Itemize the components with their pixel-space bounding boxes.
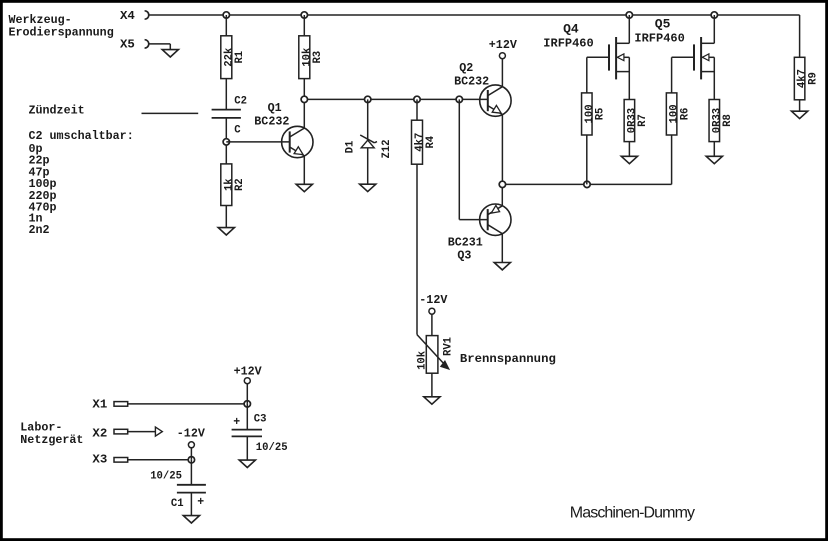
svg-text:2n2: 2n2 (29, 223, 50, 237)
label Zuendzeit (29, 103, 85, 117)
svg-text:+: + (233, 416, 240, 429)
capacitor C3 10/25 (232, 404, 288, 454)
wire Q3 collector to ground (501, 234, 503, 263)
wire Q5 drain (713, 15, 715, 43)
wire RV1 to ground (431, 373, 433, 397)
ground below Q3 (494, 263, 510, 270)
svg-text:10k: 10k (417, 350, 429, 370)
wire node to +12V (246, 384, 248, 404)
svg-text:Erodierspannung: Erodierspannung (9, 26, 114, 40)
diode D1 Z12 (345, 99, 393, 158)
junction top net at Q4 drain (626, 12, 632, 18)
wire Q5 source to R8 (713, 57, 715, 99)
connector X3 (92, 453, 127, 467)
wire Q3 base branch (459, 99, 487, 219)
svg-text:R4: R4 (425, 135, 437, 148)
svg-text:R5: R5 (595, 108, 607, 121)
svg-text:IRFP460: IRFP460 (543, 37, 593, 51)
label Werkzeug-Erodierspannung (9, 13, 114, 39)
svg-text:Q4: Q4 (563, 21, 579, 36)
resistor R4 4k7 (412, 120, 437, 164)
svg-text:R2: R2 (234, 178, 246, 191)
connector X1 (92, 398, 127, 412)
junction top net at R3 (301, 12, 307, 18)
wire R3 top (303, 15, 305, 36)
resistor R2 1k (221, 164, 246, 206)
ground below R9 (792, 111, 808, 118)
svg-text:C3: C3 (254, 414, 267, 426)
junction top net at R1 (223, 12, 229, 18)
wire -12V to RV1 (431, 314, 433, 335)
wire C3 to ground (246, 436, 248, 460)
svg-text:R6: R6 (679, 108, 691, 121)
svg-text:D1: D1 (345, 141, 357, 154)
wire X1 to +12V node (128, 403, 248, 405)
resistor R9 4k7 (794, 57, 819, 100)
label Labor-Netzgeraet (20, 421, 83, 448)
resistor R3 10k (299, 36, 324, 79)
wire R8 to ground (713, 142, 715, 157)
mosfet Q4 IRFP460 (543, 21, 629, 79)
wire Q1 collector (303, 99, 305, 127)
wire R1 top (225, 15, 227, 36)
wire D1 to ground (367, 148, 369, 184)
ground below R8 (706, 156, 722, 163)
mosfet Q5 IRFP460 (634, 17, 714, 80)
wire R6 top to Q5 gate (672, 57, 694, 93)
svg-text:R8: R8 (722, 114, 734, 127)
svg-text:10/25: 10/25 (150, 471, 182, 483)
label -12V net (177, 426, 205, 440)
svg-text:X5: X5 (120, 38, 135, 52)
svg-text:-12V: -12V (419, 293, 447, 307)
svg-text:-12V: -12V (177, 426, 205, 440)
ground below C3 (239, 460, 255, 467)
svg-text:+12V: +12V (234, 364, 262, 378)
svg-text:Z12: Z12 (381, 139, 393, 158)
resistor R8 0R33 (709, 100, 734, 142)
svg-text:Zündzeit: Zündzeit (29, 103, 85, 117)
junction output at R5 (584, 181, 590, 187)
svg-text:Q1: Q1 (268, 101, 282, 115)
capacitor C1 10/25 (150, 460, 206, 510)
connector X2 (92, 426, 127, 440)
wire R5 top to Q4 gate (587, 57, 609, 93)
svg-text:BC231: BC231 (448, 235, 483, 249)
wire R2 to ground (225, 206, 227, 228)
wire R4 bottom to RV1 wiper (416, 164, 418, 334)
junction at C1 top (188, 457, 194, 463)
ground below R2 (218, 228, 234, 235)
wire Q3 emitter up (501, 184, 503, 205)
svg-text:X2: X2 (92, 426, 107, 440)
svg-text:C1: C1 (171, 498, 184, 510)
svg-text:+: + (197, 496, 204, 509)
wire X3 to C1 node (128, 459, 192, 461)
svg-text:X3: X3 (92, 453, 107, 467)
wire base net R3 to Q2 (304, 98, 488, 100)
capacitor C2 (212, 95, 247, 136)
ground below RV1 (424, 397, 440, 404)
wire Q1 emitter to ground (303, 156, 305, 184)
supply -12V at C1 (188, 442, 194, 448)
svg-text:Q3: Q3 (457, 248, 471, 262)
svg-text:RV1: RV1 (443, 337, 455, 356)
svg-text:Brennspannung: Brennspannung (460, 352, 556, 366)
svg-text:BC232: BC232 (454, 74, 489, 88)
connector X4 (120, 9, 149, 23)
svg-text:IRFP460: IRFP460 (634, 31, 684, 45)
svg-text:R7: R7 (637, 114, 649, 127)
wire C1 to ground (190, 493, 192, 516)
junction node C2-R2-Q1 base (223, 139, 229, 145)
wire R5 bottom (586, 135, 588, 184)
svg-text:BC232: BC232 (254, 114, 289, 128)
svg-text:C: C (234, 124, 241, 136)
wire top net X4 to R9 (149, 15, 800, 57)
svg-text:Netzgerät: Netzgerät (20, 433, 83, 447)
supply -12V at RV1 (419, 293, 447, 314)
wire output net (502, 135, 671, 184)
wire Q4 drain (628, 15, 630, 43)
svg-text:X1: X1 (92, 398, 107, 412)
svg-text:X4: X4 (120, 9, 135, 23)
svg-text:10/25: 10/25 (256, 442, 288, 454)
wire R7 to ground (628, 142, 630, 157)
wire R3 bottom (303, 79, 305, 100)
wire Q4 source to R7 (628, 57, 630, 99)
wire C2 to node (225, 118, 227, 164)
resistor R6 100 (666, 93, 691, 135)
ground below Q1 (296, 184, 312, 191)
svg-text:Maschinen-Dummy: Maschinen-Dummy (570, 505, 695, 522)
svg-text:R1: R1 (234, 51, 246, 64)
junction base net at Q3 branch (456, 96, 462, 102)
svg-text:R3: R3 (312, 51, 324, 64)
junction top net at Q5 drain (711, 12, 717, 18)
junction base net at D1 (365, 96, 371, 102)
label Brennspannung (460, 352, 556, 366)
wire R9 to ground (799, 100, 801, 111)
ground below C1 (183, 516, 199, 523)
wire X2 arrow (128, 427, 163, 436)
svg-text:R9: R9 (807, 72, 819, 85)
wire X5 to ground (149, 44, 171, 50)
connector X5 (120, 38, 149, 52)
junction base net at R3 (301, 96, 307, 102)
resistor R5 100 (582, 93, 607, 135)
ground at X5 (162, 50, 178, 57)
wire -12V to node (190, 448, 192, 460)
switch wiper line for C2 (142, 112, 199, 114)
ground below R7 (621, 156, 637, 163)
svg-text:C2: C2 (234, 95, 247, 107)
supply +12V at C3 (234, 364, 262, 383)
wire Q2 collector to +12V (501, 59, 503, 86)
wire node to Q1 base (226, 141, 289, 143)
junction base net at R4 (414, 96, 420, 102)
potentiometer RV1 10k (417, 335, 455, 374)
label Maschinen-Dummy (570, 505, 695, 522)
junction output at Q2/Q3 (499, 181, 505, 187)
transistor Q2 BC232 (454, 61, 511, 116)
label C2 umschaltbar list (29, 129, 134, 237)
transistor Q1 BC232 (254, 101, 313, 158)
ground below D1 (360, 184, 376, 191)
junction at C3 top (244, 401, 250, 407)
svg-text:C2 umschaltbar:: C2 umschaltbar: (29, 129, 134, 143)
svg-text:Q5: Q5 (655, 17, 671, 32)
svg-text:+12V: +12V (489, 38, 517, 52)
wire R1 bottom to C2 (225, 79, 227, 110)
resistor R1 22k (221, 36, 246, 79)
transistor Q3 BC231 (448, 204, 511, 262)
wire R4 top (416, 99, 418, 120)
supply +12V at Q2 (489, 38, 517, 59)
resistor R7 0R33 (624, 100, 649, 142)
svg-text:Q2: Q2 (459, 61, 473, 75)
wire Q2 emitter to output node (501, 115, 503, 184)
